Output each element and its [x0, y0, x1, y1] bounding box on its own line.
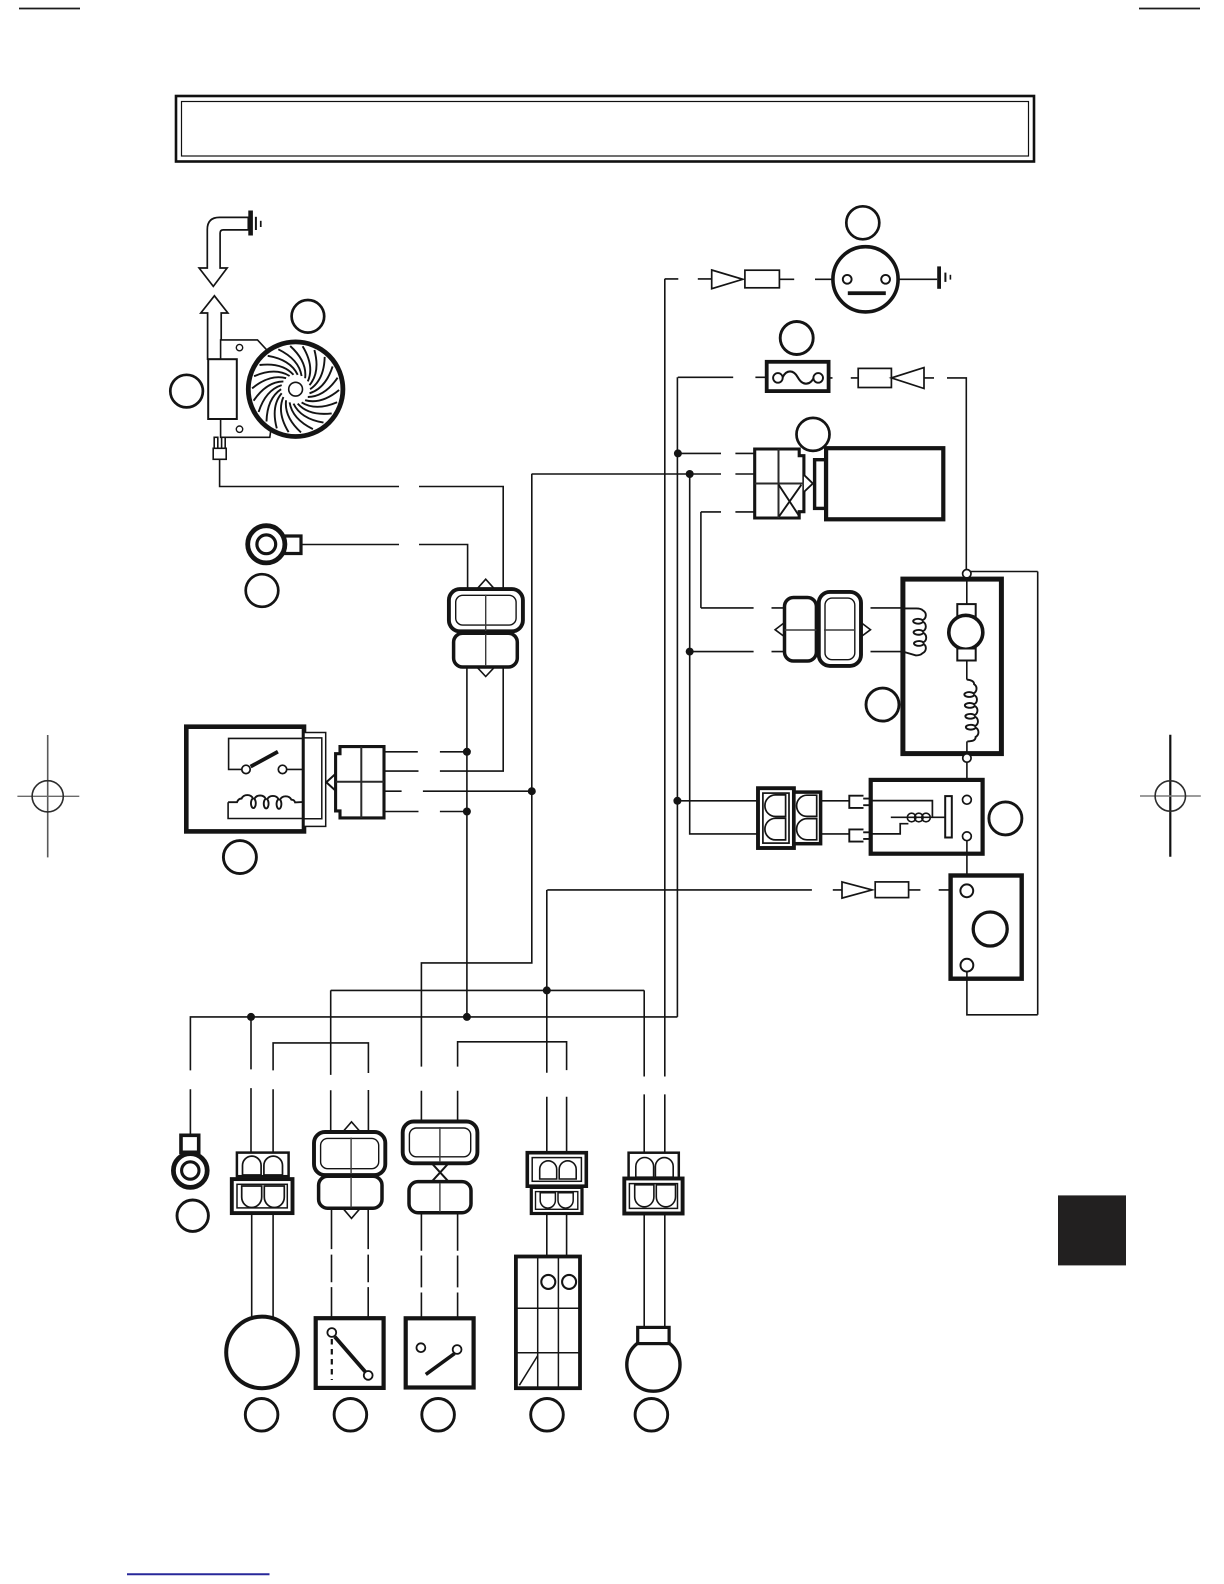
flywheel magneto rotor	[248, 342, 343, 437]
junction dot bullet-left bus	[463, 1013, 471, 1021]
flasher unit dividers	[516, 1257, 580, 1389]
junction dot starter pin1	[674, 449, 682, 457]
fuse terminal right	[813, 373, 823, 383]
CDI internal switch blade	[251, 752, 278, 767]
wire to starter switch	[909, 889, 955, 891]
magneto lead connector	[213, 437, 226, 459]
CDI internal switch contact b	[278, 765, 286, 773]
fuse terminal left	[773, 373, 783, 383]
connector A top pins	[243, 1156, 283, 1175]
junction dot starter pin2	[686, 470, 694, 478]
registration mark right	[1140, 735, 1201, 857]
callout circle (fuse)	[780, 322, 813, 355]
fuse element	[783, 371, 814, 383]
callout circle (starter motor)	[797, 418, 830, 451]
CDI connector shroud	[304, 733, 326, 827]
callout circle (regulator)	[866, 688, 899, 721]
horn lead terminal block	[745, 270, 780, 288]
CDI internal switch contact a	[242, 765, 250, 773]
right return bus	[1037, 572, 1039, 1015]
starter switch box	[951, 876, 1022, 979]
wire magneto to bullet connector	[220, 459, 504, 589]
registration mark left	[17, 735, 79, 857]
CDI unit box	[186, 727, 304, 832]
junction dot bus-eyelet branch	[247, 1013, 255, 1021]
connector center split line	[485, 595, 487, 667]
wire eyelet to bullet connector	[301, 545, 468, 590]
key switch blade	[426, 1354, 455, 1375]
connector D bottom half	[531, 1187, 582, 1213]
relay spade terminal top	[849, 796, 870, 808]
key switch box	[406, 1318, 474, 1387]
CDI charge coil	[228, 795, 304, 809]
brake switch contact b	[364, 1371, 373, 1380]
CDI internal source wire	[229, 738, 322, 769]
CDI lead 2	[384, 667, 503, 771]
brush top	[957, 604, 975, 616]
starter connector blank-pin X	[779, 485, 802, 517]
wire relay pin1	[677, 800, 758, 802]
trim mark top-left	[19, 8, 80, 10]
wire relay pin2	[690, 474, 758, 834]
ground bus horizontal	[190, 1017, 677, 1135]
CDI switch output wire	[287, 768, 322, 770]
frame ground eyelet stem	[181, 1135, 199, 1152]
series coil (spring)	[964, 680, 978, 742]
key switch contact a	[417, 1343, 426, 1352]
up arrow (from ignition coil)	[201, 296, 228, 359]
series coil lead bottom	[966, 741, 968, 753]
jumper col A right to col B right	[273, 1043, 368, 1153]
bullet pair B bottom half	[319, 1176, 382, 1208]
fuse lead terminal block	[858, 368, 891, 387]
TITLE BOX	[176, 96, 1034, 162]
wire generator lead 1	[701, 607, 785, 609]
relay spade terminal bottom	[849, 829, 870, 841]
fan blades	[252, 346, 339, 432]
junction dot battery bus	[543, 986, 551, 994]
wire fuse to diode	[829, 377, 859, 379]
brake switch blade	[335, 1337, 366, 1373]
bracket bolt top	[236, 344, 242, 350]
relay terminal top	[963, 795, 972, 804]
starter motor body	[826, 448, 943, 519]
flasher unit terminals	[541, 1275, 555, 1289]
generator connector right arrow	[861, 622, 871, 637]
wire regulator top to right bus	[971, 571, 1038, 573]
key switch contact b	[453, 1345, 462, 1354]
generator connector pair right half	[819, 592, 861, 666]
wire bullet-left down to bus	[466, 667, 468, 1017]
junction dot relay pin1	[673, 797, 681, 805]
bullet pair B arrow up	[343, 1122, 361, 1132]
generator connector left arrow	[775, 622, 785, 637]
bullet connector top half	[449, 589, 523, 631]
flasher/rectifier unit box	[516, 1257, 580, 1389]
trim mark top-right	[1139, 8, 1200, 10]
CDI lead 3	[384, 790, 532, 792]
connector D top half	[527, 1153, 586, 1187]
wire starter pin1	[678, 452, 755, 454]
wire to horn body	[779, 278, 832, 280]
flywheel hub	[289, 382, 303, 396]
starter 4P connector (mirrored, arrow right)	[755, 449, 804, 518]
relay 2P connector left half	[758, 788, 794, 848]
callout circle (ground lead)	[246, 574, 279, 607]
bracket bolt bottom	[236, 426, 242, 432]
spark plug	[248, 211, 261, 236]
connector A bottom half	[232, 1179, 293, 1213]
connector pair C X link	[432, 1163, 449, 1181]
relay contact bar	[945, 796, 952, 837]
junction dot lead4	[463, 808, 471, 816]
junction dot lead3	[528, 787, 536, 795]
callout circle (brake switch)	[334, 1399, 367, 1432]
starter connector cross dividers	[755, 449, 804, 518]
wire diode row	[547, 889, 842, 891]
horn terminal +	[843, 275, 852, 284]
pilot lamp base	[638, 1327, 669, 1343]
callout circle (pilot lamp)	[635, 1399, 668, 1432]
wire generator lead 2	[690, 651, 785, 653]
CDI coil return wire	[228, 802, 322, 818]
CDI 4P connector plug arrow	[326, 774, 335, 791]
starter switch terminal top	[960, 884, 973, 897]
wire fuse row left	[678, 376, 767, 378]
bullet connector bottom half	[454, 633, 518, 667]
brake switch box	[316, 1318, 384, 1388]
connector E top pins	[636, 1158, 673, 1178]
ignition coil	[208, 359, 237, 419]
bullet pair B arrow down	[343, 1208, 361, 1218]
wire col B left riser	[330, 990, 332, 1132]
brake switch contact a	[327, 1328, 336, 1337]
junction dot lead1	[463, 748, 471, 756]
blue footer rule	[127, 1573, 270, 1575]
arrow down	[477, 667, 495, 677]
regulator bottom terminal	[963, 754, 971, 762]
fuse feed bus vertical	[676, 377, 678, 1017]
relay connector pins right	[797, 795, 817, 840]
callout circle (magneto)	[292, 300, 325, 333]
diode lead terminal block	[875, 882, 908, 898]
connector E top half	[629, 1153, 679, 1179]
wire starter pin3 to generator lead1	[700, 512, 702, 608]
bullet pair B split line	[350, 1138, 352, 1208]
flasher unit diagonal	[519, 1356, 537, 1386]
horn ground spark-plug symbol	[937, 266, 951, 288]
relay internal wiring	[871, 801, 933, 834]
CDI lead 1	[384, 751, 467, 753]
voltage regulator / generator box	[903, 579, 1002, 754]
callout circle (CDI unit)	[223, 841, 256, 874]
wires C to key switch	[421, 1213, 457, 1345]
callout circle (flasher unit)	[531, 1399, 564, 1432]
wire col D left riser (diode feed)	[546, 890, 548, 1153]
battery bus to lamp column	[331, 990, 645, 1152]
wires connector to regulator	[871, 608, 917, 652]
fuse lead arrow (left pointing)	[891, 368, 924, 389]
horn bus vertical	[664, 279, 666, 1153]
CDI lead 4	[384, 811, 467, 813]
connector E bottom pins	[635, 1185, 676, 1207]
horn lead arrow	[712, 270, 743, 289]
starter relay box	[871, 780, 983, 854]
bullet connector pair (magneto leads) arrow up	[477, 579, 495, 589]
wire CDI lead3 riser	[421, 474, 531, 1122]
brake switch travel dashes	[331, 1339, 333, 1380]
connector D top pins	[540, 1161, 577, 1179]
wires D to flasher unit	[547, 1214, 567, 1257]
connector pair C split line	[439, 1127, 441, 1212]
brush bottom	[957, 649, 975, 661]
frame ground eyelet ring	[173, 1154, 207, 1188]
MAIN DIAGRAM placeholder groups	[170, 211, 503, 590]
diode arrow	[842, 882, 872, 898]
wire starter pin3	[701, 511, 755, 513]
wire horn to ground	[898, 278, 937, 280]
wire to regulator top	[924, 378, 966, 570]
wire relay to solenoid terminal	[966, 841, 968, 885]
relay connector pins left	[765, 795, 786, 840]
bullet pair B top half	[314, 1132, 385, 1175]
callout circle (key switch)	[422, 1399, 455, 1432]
connector E bottom half	[624, 1179, 682, 1214]
callout circle (starter generator)	[245, 1399, 278, 1432]
armature	[949, 615, 983, 649]
wire solenoid bottom loop	[967, 972, 1038, 1015]
horn diaphragm bar	[848, 291, 886, 295]
relay coil	[891, 816, 945, 818]
pilot lamp bulb	[627, 1338, 680, 1391]
black thumb tab	[1058, 1195, 1126, 1265]
armature lead top	[966, 578, 968, 604]
starter switch terminal bottom	[961, 959, 974, 972]
wires E to pilot lamp	[644, 1214, 665, 1328]
starter connector arrow	[804, 475, 813, 492]
generator connector split line	[785, 629, 856, 631]
magneto mounting bracket	[221, 340, 273, 437]
starter switch plunger	[973, 912, 1007, 946]
wire to horn	[665, 278, 712, 280]
starter generator	[226, 1317, 298, 1389]
connector pair C top half	[403, 1122, 478, 1164]
relay terminal bottom	[963, 832, 972, 841]
jumper col C right to col D right	[458, 1042, 567, 1153]
callout circle (horn)	[846, 206, 879, 239]
wires B to brake switch	[332, 1208, 369, 1371]
connector D bottom pins	[540, 1193, 573, 1208]
starter motor brush terminal	[815, 460, 826, 509]
fuse box	[767, 362, 829, 391]
generator connector pair left half	[785, 598, 817, 662]
junction dot generator lead2	[686, 648, 694, 656]
regulator top terminal	[963, 570, 971, 578]
callout circle (ignition coil)	[170, 375, 203, 408]
wire starter pin2 (battery bus)	[532, 473, 755, 475]
ring terminal eyelet (engine ground lead)	[248, 526, 301, 563]
wire col A left riser	[250, 1017, 252, 1153]
callout circle (starter relay)	[989, 802, 1022, 835]
horn	[833, 247, 898, 312]
wires connector A to starter-generator	[252, 1213, 273, 1319]
CDI 4P connector cross dividers	[336, 747, 384, 818]
field coil winding	[903, 608, 926, 655]
wires connector to relay spades	[821, 801, 850, 834]
callout circle (frame ground)	[177, 1200, 208, 1231]
connector pair C bottom half	[409, 1182, 471, 1213]
HT cord elbow with down arrow (to spark plug)	[199, 217, 248, 286]
horn terminal -	[881, 275, 890, 284]
armature lead to series coil	[966, 661, 968, 680]
CDI 4P connector	[336, 747, 384, 818]
connector A bottom pins	[242, 1186, 285, 1208]
relay 2P connector right half	[794, 792, 821, 844]
wire regulator bottom to relay	[966, 762, 968, 795]
connector A top half	[237, 1153, 289, 1177]
